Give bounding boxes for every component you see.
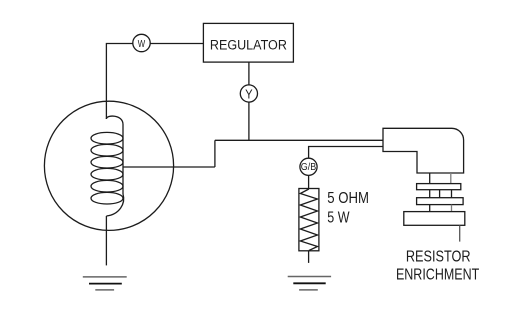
wire	[123, 166, 215, 168]
ground	[83, 277, 127, 290]
svg-text:ENRICHMENT: ENRICHMENT	[396, 267, 479, 284]
ground	[288, 277, 331, 290]
inductor winding	[91, 116, 124, 216]
regulator box	[203, 23, 293, 62]
wire	[106, 44, 132, 120]
wire	[459, 225, 461, 241]
rib interconnects	[430, 190, 452, 198]
svg-text:5 OHM: 5 OHM	[327, 190, 369, 207]
terminal Y	[240, 85, 257, 102]
wire	[150, 43, 203, 45]
terminal W	[133, 34, 150, 51]
resistor R1	[299, 189, 319, 251]
wire	[215, 139, 383, 141]
wire	[308, 175, 310, 188]
svg-text:5 W: 5 W	[327, 210, 349, 227]
svg-text:G/B: G/B	[301, 162, 317, 173]
label 5 OHM / 5 W	[327, 190, 369, 227]
svg-text:Y: Y	[245, 87, 253, 101]
label RESISTOR ENRICHMENT	[396, 249, 479, 284]
svg-text:REGULATOR: REGULATOR	[210, 38, 287, 54]
svg-text:RESISTOR: RESISTOR	[406, 249, 471, 266]
svg-text:W: W	[138, 38, 145, 50]
generator G1	[44, 101, 173, 230]
wire	[309, 147, 383, 159]
wire	[308, 251, 310, 263]
terminal G/B	[300, 158, 317, 175]
connector cap body	[383, 128, 464, 173]
resistor rib 2	[417, 198, 464, 205]
wire	[214, 140, 216, 167]
wire	[248, 62, 250, 85]
wire	[105, 216, 107, 265]
resistor rib 1	[417, 184, 461, 190]
connector rib leads	[430, 173, 451, 184]
connector base bar	[404, 212, 465, 226]
rib lower leads	[430, 205, 452, 212]
wire	[248, 102, 250, 140]
